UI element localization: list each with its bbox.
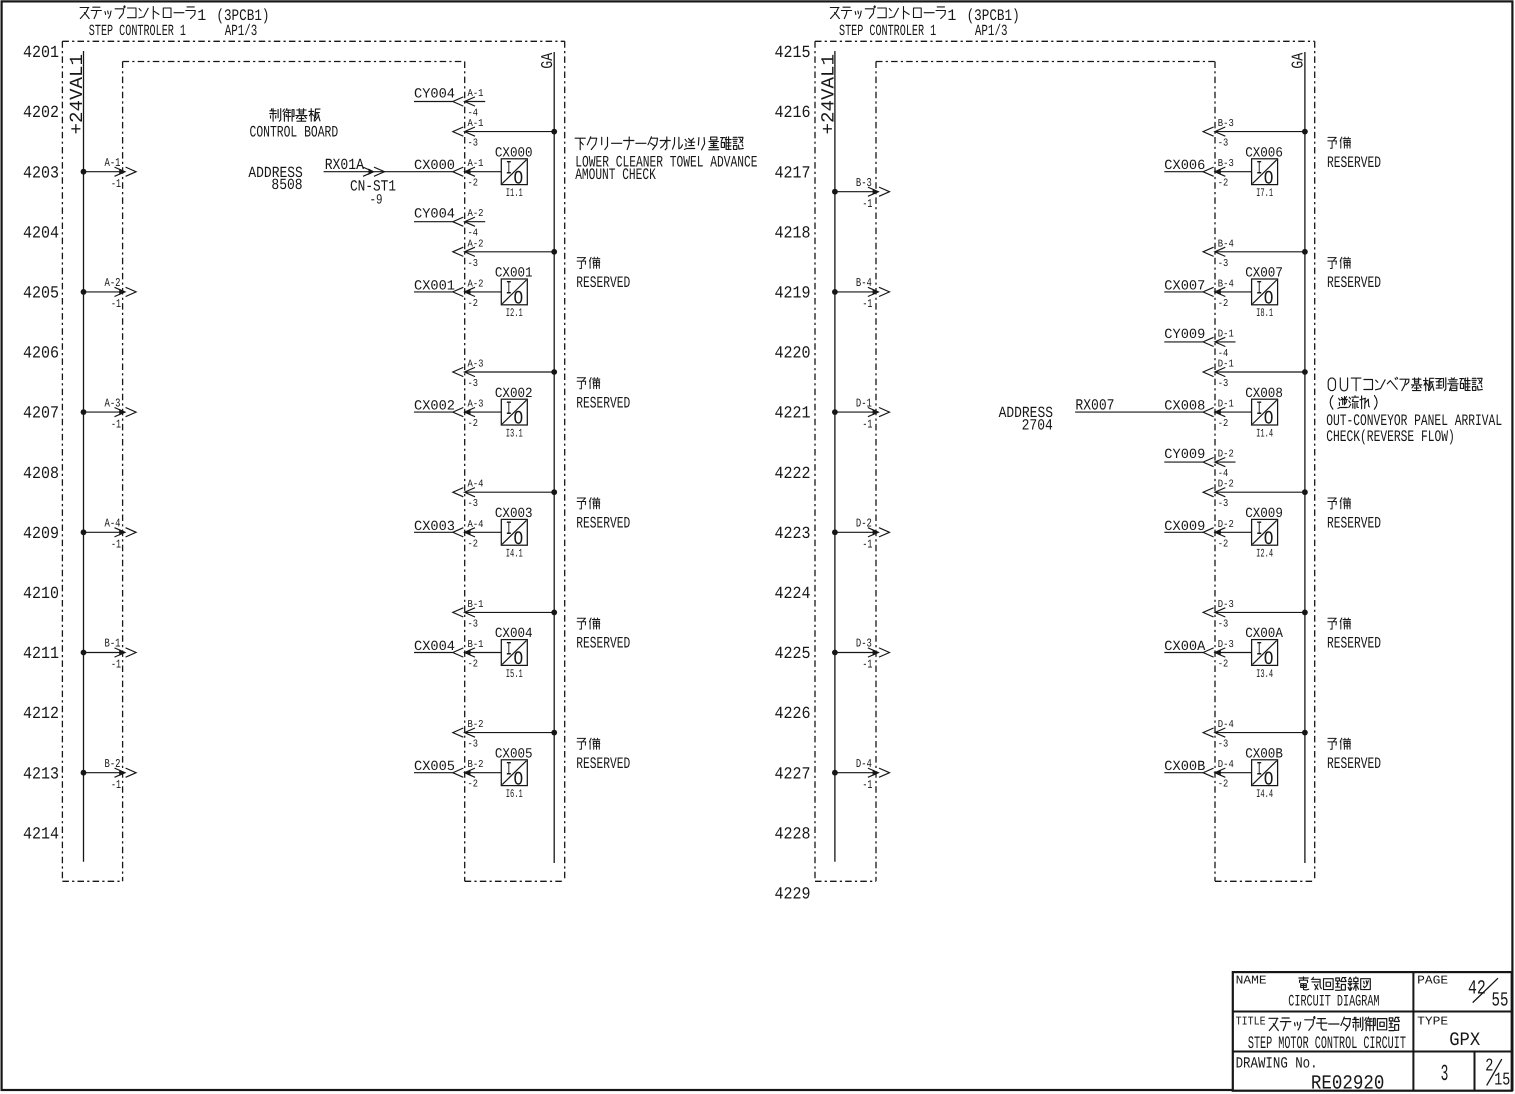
svg-text:4206: 4206 <box>23 345 59 364</box>
svg-text:RESERVED: RESERVED <box>576 515 630 533</box>
svg-text:CX000: CX000 <box>414 158 455 174</box>
svg-text:I4.4: I4.4 <box>1256 788 1273 801</box>
svg-text:-1: -1 <box>862 658 872 672</box>
svg-text:CX007: CX007 <box>1245 266 1283 282</box>
svg-text:CX004: CX004 <box>495 626 533 642</box>
svg-text:-1: -1 <box>111 297 121 311</box>
svg-text:-3: -3 <box>468 739 479 751</box>
svg-text:CX00A: CX00A <box>1164 639 1206 655</box>
svg-text:-1: -1 <box>111 177 121 191</box>
svg-text:4203: 4203 <box>23 164 59 183</box>
svg-text:-3: -3 <box>1218 498 1229 510</box>
svg-text:4221: 4221 <box>775 405 811 424</box>
svg-text:I4.1: I4.1 <box>506 548 523 561</box>
svg-text:RESERVED: RESERVED <box>1327 635 1381 653</box>
svg-text:CX008: CX008 <box>1245 386 1283 402</box>
svg-text:CX003: CX003 <box>414 519 455 535</box>
svg-text:-1: -1 <box>111 778 121 792</box>
svg-text:CX004: CX004 <box>414 639 455 655</box>
svg-text:RESERVED: RESERVED <box>1327 274 1381 292</box>
svg-text:4220: 4220 <box>775 345 811 364</box>
svg-text:CHECK(REVERSE FLOW): CHECK(REVERSE FLOW) <box>1326 428 1455 446</box>
svg-text:CX009: CX009 <box>1164 519 1205 535</box>
svg-text:O: O <box>1264 288 1274 310</box>
svg-text:CX00A: CX00A <box>1245 626 1283 642</box>
svg-text:RESERVED: RESERVED <box>1327 515 1381 533</box>
svg-text:4202: 4202 <box>23 104 59 123</box>
svg-text:CX005: CX005 <box>414 759 455 775</box>
svg-text:B-2: B-2 <box>468 719 484 731</box>
svg-text:-3: -3 <box>1218 618 1229 630</box>
svg-text:O: O <box>514 648 524 670</box>
svg-text:RESERVED: RESERVED <box>1327 154 1381 172</box>
svg-text:CY004: CY004 <box>414 87 455 103</box>
svg-text:A-2: A-2 <box>468 278 484 290</box>
svg-text:CX003: CX003 <box>495 506 533 522</box>
svg-text:TYPE: TYPE <box>1417 1014 1448 1028</box>
svg-text:PAGE: PAGE <box>1417 973 1448 987</box>
svg-text:AP1/3: AP1/3 <box>225 22 258 40</box>
svg-text:-3: -3 <box>1218 378 1229 390</box>
svg-text:D-1: D-1 <box>1218 399 1234 411</box>
svg-text:4218: 4218 <box>775 224 811 243</box>
svg-text:RESERVED: RESERVED <box>576 274 630 292</box>
svg-text:-2: -2 <box>1218 298 1229 310</box>
svg-text:-1: -1 <box>862 417 872 431</box>
svg-text:D-1: D-1 <box>1218 328 1234 340</box>
svg-text:NAME: NAME <box>1236 973 1267 987</box>
svg-text:CX002: CX002 <box>495 386 533 402</box>
svg-text:A-4: A-4 <box>105 517 121 531</box>
svg-text:-3: -3 <box>468 618 479 630</box>
svg-text:15: 15 <box>1494 1071 1510 1091</box>
svg-text:AP1/3: AP1/3 <box>975 22 1008 40</box>
svg-text:D-2: D-2 <box>1218 519 1234 531</box>
svg-text:O: O <box>1264 528 1274 550</box>
svg-text:I3.4: I3.4 <box>1256 668 1273 681</box>
svg-text:I2.4: I2.4 <box>1256 548 1273 561</box>
svg-text:A-3: A-3 <box>105 396 121 410</box>
svg-text:GPX: GPX <box>1449 1029 1481 1051</box>
svg-text:CX005: CX005 <box>495 746 533 762</box>
svg-text:O: O <box>1264 768 1274 790</box>
svg-text:B-2: B-2 <box>105 757 121 771</box>
svg-text:2: 2 <box>1485 1057 1493 1077</box>
svg-text:-2: -2 <box>1218 779 1229 791</box>
svg-text:O: O <box>1264 408 1274 430</box>
svg-text:4205: 4205 <box>23 285 59 304</box>
svg-text:B-3: B-3 <box>1218 158 1234 170</box>
svg-text:I7.1: I7.1 <box>1256 187 1273 200</box>
svg-text:-3: -3 <box>468 258 479 270</box>
svg-text:B-1: B-1 <box>105 637 121 651</box>
svg-text:CX001: CX001 <box>414 278 455 294</box>
svg-text:B-3: B-3 <box>1218 118 1234 130</box>
svg-text:CX00B: CX00B <box>1245 746 1283 762</box>
svg-text:O: O <box>1264 167 1274 189</box>
svg-text:4211: 4211 <box>23 645 59 664</box>
svg-text:RX007: RX007 <box>1075 397 1114 415</box>
svg-text:D-3: D-3 <box>1218 599 1234 611</box>
svg-text:O: O <box>514 768 524 790</box>
svg-text:4214: 4214 <box>23 825 59 844</box>
svg-text:CX008: CX008 <box>1164 399 1205 415</box>
svg-text:O: O <box>1264 648 1274 670</box>
svg-text:RESERVED: RESERVED <box>576 755 630 773</box>
svg-text:RESERVED: RESERVED <box>576 394 630 412</box>
svg-text:-3: -3 <box>468 378 479 390</box>
svg-text:4213: 4213 <box>23 765 59 784</box>
svg-text:B-4: B-4 <box>856 276 872 290</box>
svg-text:O: O <box>514 288 524 310</box>
svg-text:4225: 4225 <box>775 645 811 664</box>
svg-text:-2: -2 <box>1218 418 1229 430</box>
svg-text:A-3: A-3 <box>468 399 484 411</box>
svg-text:-1: -1 <box>862 778 872 792</box>
svg-text:A-1: A-1 <box>468 88 484 100</box>
svg-text:4219: 4219 <box>775 285 811 304</box>
svg-text:3: 3 <box>1441 1061 1449 1087</box>
svg-text:42: 42 <box>1468 977 1486 1000</box>
svg-text:+24VAL1: +24VAL1 <box>67 54 88 134</box>
svg-text:A-4: A-4 <box>468 479 484 491</box>
svg-text:A-2: A-2 <box>468 208 484 220</box>
svg-text:-1: -1 <box>862 197 872 211</box>
svg-text:O: O <box>514 528 524 550</box>
svg-text:CX002: CX002 <box>414 399 455 415</box>
svg-text:D-3: D-3 <box>856 637 872 651</box>
svg-text:4212: 4212 <box>23 705 59 724</box>
svg-text:B-4: B-4 <box>1218 278 1234 290</box>
svg-text:B-1: B-1 <box>468 599 484 611</box>
svg-text:TITLE: TITLE <box>1236 1014 1266 1028</box>
svg-text:-2: -2 <box>468 298 479 310</box>
svg-text:A-3: A-3 <box>468 359 484 371</box>
svg-text:D-4: D-4 <box>856 757 872 771</box>
svg-text:B-3: B-3 <box>856 176 872 190</box>
svg-text:-3: -3 <box>1218 739 1229 751</box>
svg-text:RX01A: RX01A <box>325 156 365 174</box>
svg-text:D-4: D-4 <box>1218 759 1234 771</box>
svg-text:4210: 4210 <box>23 585 59 604</box>
svg-text:D-4: D-4 <box>1218 719 1234 731</box>
svg-text:CX006: CX006 <box>1164 158 1205 174</box>
svg-text:I8.1: I8.1 <box>1256 307 1273 320</box>
svg-text:A-1: A-1 <box>468 118 484 130</box>
svg-text:-2: -2 <box>468 178 479 190</box>
svg-text:B-4: B-4 <box>1218 238 1234 250</box>
svg-text:I6.1: I6.1 <box>506 788 523 801</box>
svg-text:I5.1: I5.1 <box>506 668 523 681</box>
svg-text:55: 55 <box>1492 990 1509 1013</box>
svg-text:CX001: CX001 <box>495 266 533 282</box>
svg-text:I1.4: I1.4 <box>1256 427 1273 440</box>
svg-text:GA: GA <box>538 53 557 69</box>
svg-text:I3.1: I3.1 <box>506 427 523 440</box>
svg-text:4201: 4201 <box>23 44 59 63</box>
svg-text:STEP CONTROLER 1: STEP CONTROLER 1 <box>89 22 186 40</box>
svg-text:+24VAL1: +24VAL1 <box>818 54 839 134</box>
svg-text:4215: 4215 <box>775 44 811 63</box>
svg-text:-2: -2 <box>468 659 479 671</box>
svg-text:8508: 8508 <box>271 176 302 194</box>
svg-text:4222: 4222 <box>775 465 811 484</box>
svg-text:4224: 4224 <box>775 585 811 604</box>
svg-text:D-2: D-2 <box>856 517 872 531</box>
svg-text:-1: -1 <box>111 658 121 672</box>
svg-text:O: O <box>514 408 524 430</box>
svg-text:A-4: A-4 <box>468 519 484 531</box>
svg-text:-9: -9 <box>370 192 383 208</box>
svg-text:4208: 4208 <box>23 465 59 484</box>
svg-text:-2: -2 <box>1218 659 1229 671</box>
svg-text:-3: -3 <box>1218 258 1229 270</box>
svg-text:D-3: D-3 <box>1218 639 1234 651</box>
svg-text:-1: -1 <box>111 417 121 431</box>
svg-text:4228: 4228 <box>775 825 811 844</box>
svg-text:A-2: A-2 <box>105 276 121 290</box>
svg-text:CX007: CX007 <box>1164 278 1205 294</box>
svg-text:STEP CONTROLER 1: STEP CONTROLER 1 <box>839 22 936 40</box>
svg-text:4226: 4226 <box>775 705 811 724</box>
svg-text:-3: -3 <box>1218 138 1229 150</box>
svg-text:CX006: CX006 <box>1245 145 1283 161</box>
svg-text:D-1: D-1 <box>1218 359 1234 371</box>
svg-text:CY004: CY004 <box>414 207 455 223</box>
svg-text:4229: 4229 <box>775 886 811 905</box>
svg-text:D-2: D-2 <box>1218 449 1234 461</box>
svg-text:D-2: D-2 <box>1218 479 1234 491</box>
svg-text:4207: 4207 <box>23 405 59 424</box>
svg-text:4209: 4209 <box>23 525 59 544</box>
svg-text:CIRCUIT DIAGRAM: CIRCUIT DIAGRAM <box>1288 993 1379 1011</box>
svg-text:2704: 2704 <box>1022 417 1053 435</box>
svg-text:DRAWING No.: DRAWING No. <box>1236 1055 1318 1073</box>
svg-text:RESERVED: RESERVED <box>576 635 630 653</box>
svg-text:4217: 4217 <box>775 164 811 183</box>
svg-text:-1: -1 <box>111 538 121 552</box>
svg-text:AMOUNT CHECK: AMOUNT CHECK <box>575 166 656 184</box>
svg-text:A-1: A-1 <box>468 158 484 170</box>
svg-text:CY009: CY009 <box>1164 447 1205 463</box>
svg-text:CX000: CX000 <box>495 145 533 161</box>
svg-text:A-2: A-2 <box>468 238 484 250</box>
svg-text:A-1: A-1 <box>105 156 121 170</box>
svg-text:CONTROL BOARD: CONTROL BOARD <box>250 124 339 142</box>
svg-text:STEP MOTOR CONTROL CIRCUIT: STEP MOTOR CONTROL CIRCUIT <box>1248 1034 1406 1054</box>
svg-text:CX009: CX009 <box>1245 506 1283 522</box>
svg-text:B-2: B-2 <box>468 759 484 771</box>
svg-text:1: 1 <box>197 7 206 25</box>
svg-text:B-1: B-1 <box>468 639 484 651</box>
svg-text:-1: -1 <box>862 297 872 311</box>
svg-text:CY009: CY009 <box>1164 327 1205 343</box>
svg-text:-2: -2 <box>1218 538 1229 550</box>
svg-text:-2: -2 <box>468 538 479 550</box>
svg-text:I2.1: I2.1 <box>506 307 523 320</box>
svg-text:-3: -3 <box>468 138 479 150</box>
svg-text:4223: 4223 <box>775 525 811 544</box>
svg-text:-2: -2 <box>1218 178 1229 190</box>
svg-text:-1: -1 <box>862 538 872 552</box>
svg-text:4204: 4204 <box>23 224 59 243</box>
svg-text:D-1: D-1 <box>856 396 872 410</box>
svg-text:4227: 4227 <box>775 765 811 784</box>
svg-text:-2: -2 <box>468 779 479 791</box>
svg-text:RESERVED: RESERVED <box>1327 755 1381 773</box>
svg-text:GA: GA <box>1289 53 1308 69</box>
svg-text:-3: -3 <box>468 498 479 510</box>
svg-text:I1.1: I1.1 <box>506 187 523 200</box>
svg-text:RE02920: RE02920 <box>1311 1072 1385 1094</box>
svg-text:4216: 4216 <box>775 104 811 123</box>
svg-text:1: 1 <box>947 7 956 25</box>
svg-text:O: O <box>514 167 524 189</box>
svg-text:-2: -2 <box>468 418 479 430</box>
svg-text:CX00B: CX00B <box>1164 759 1205 775</box>
